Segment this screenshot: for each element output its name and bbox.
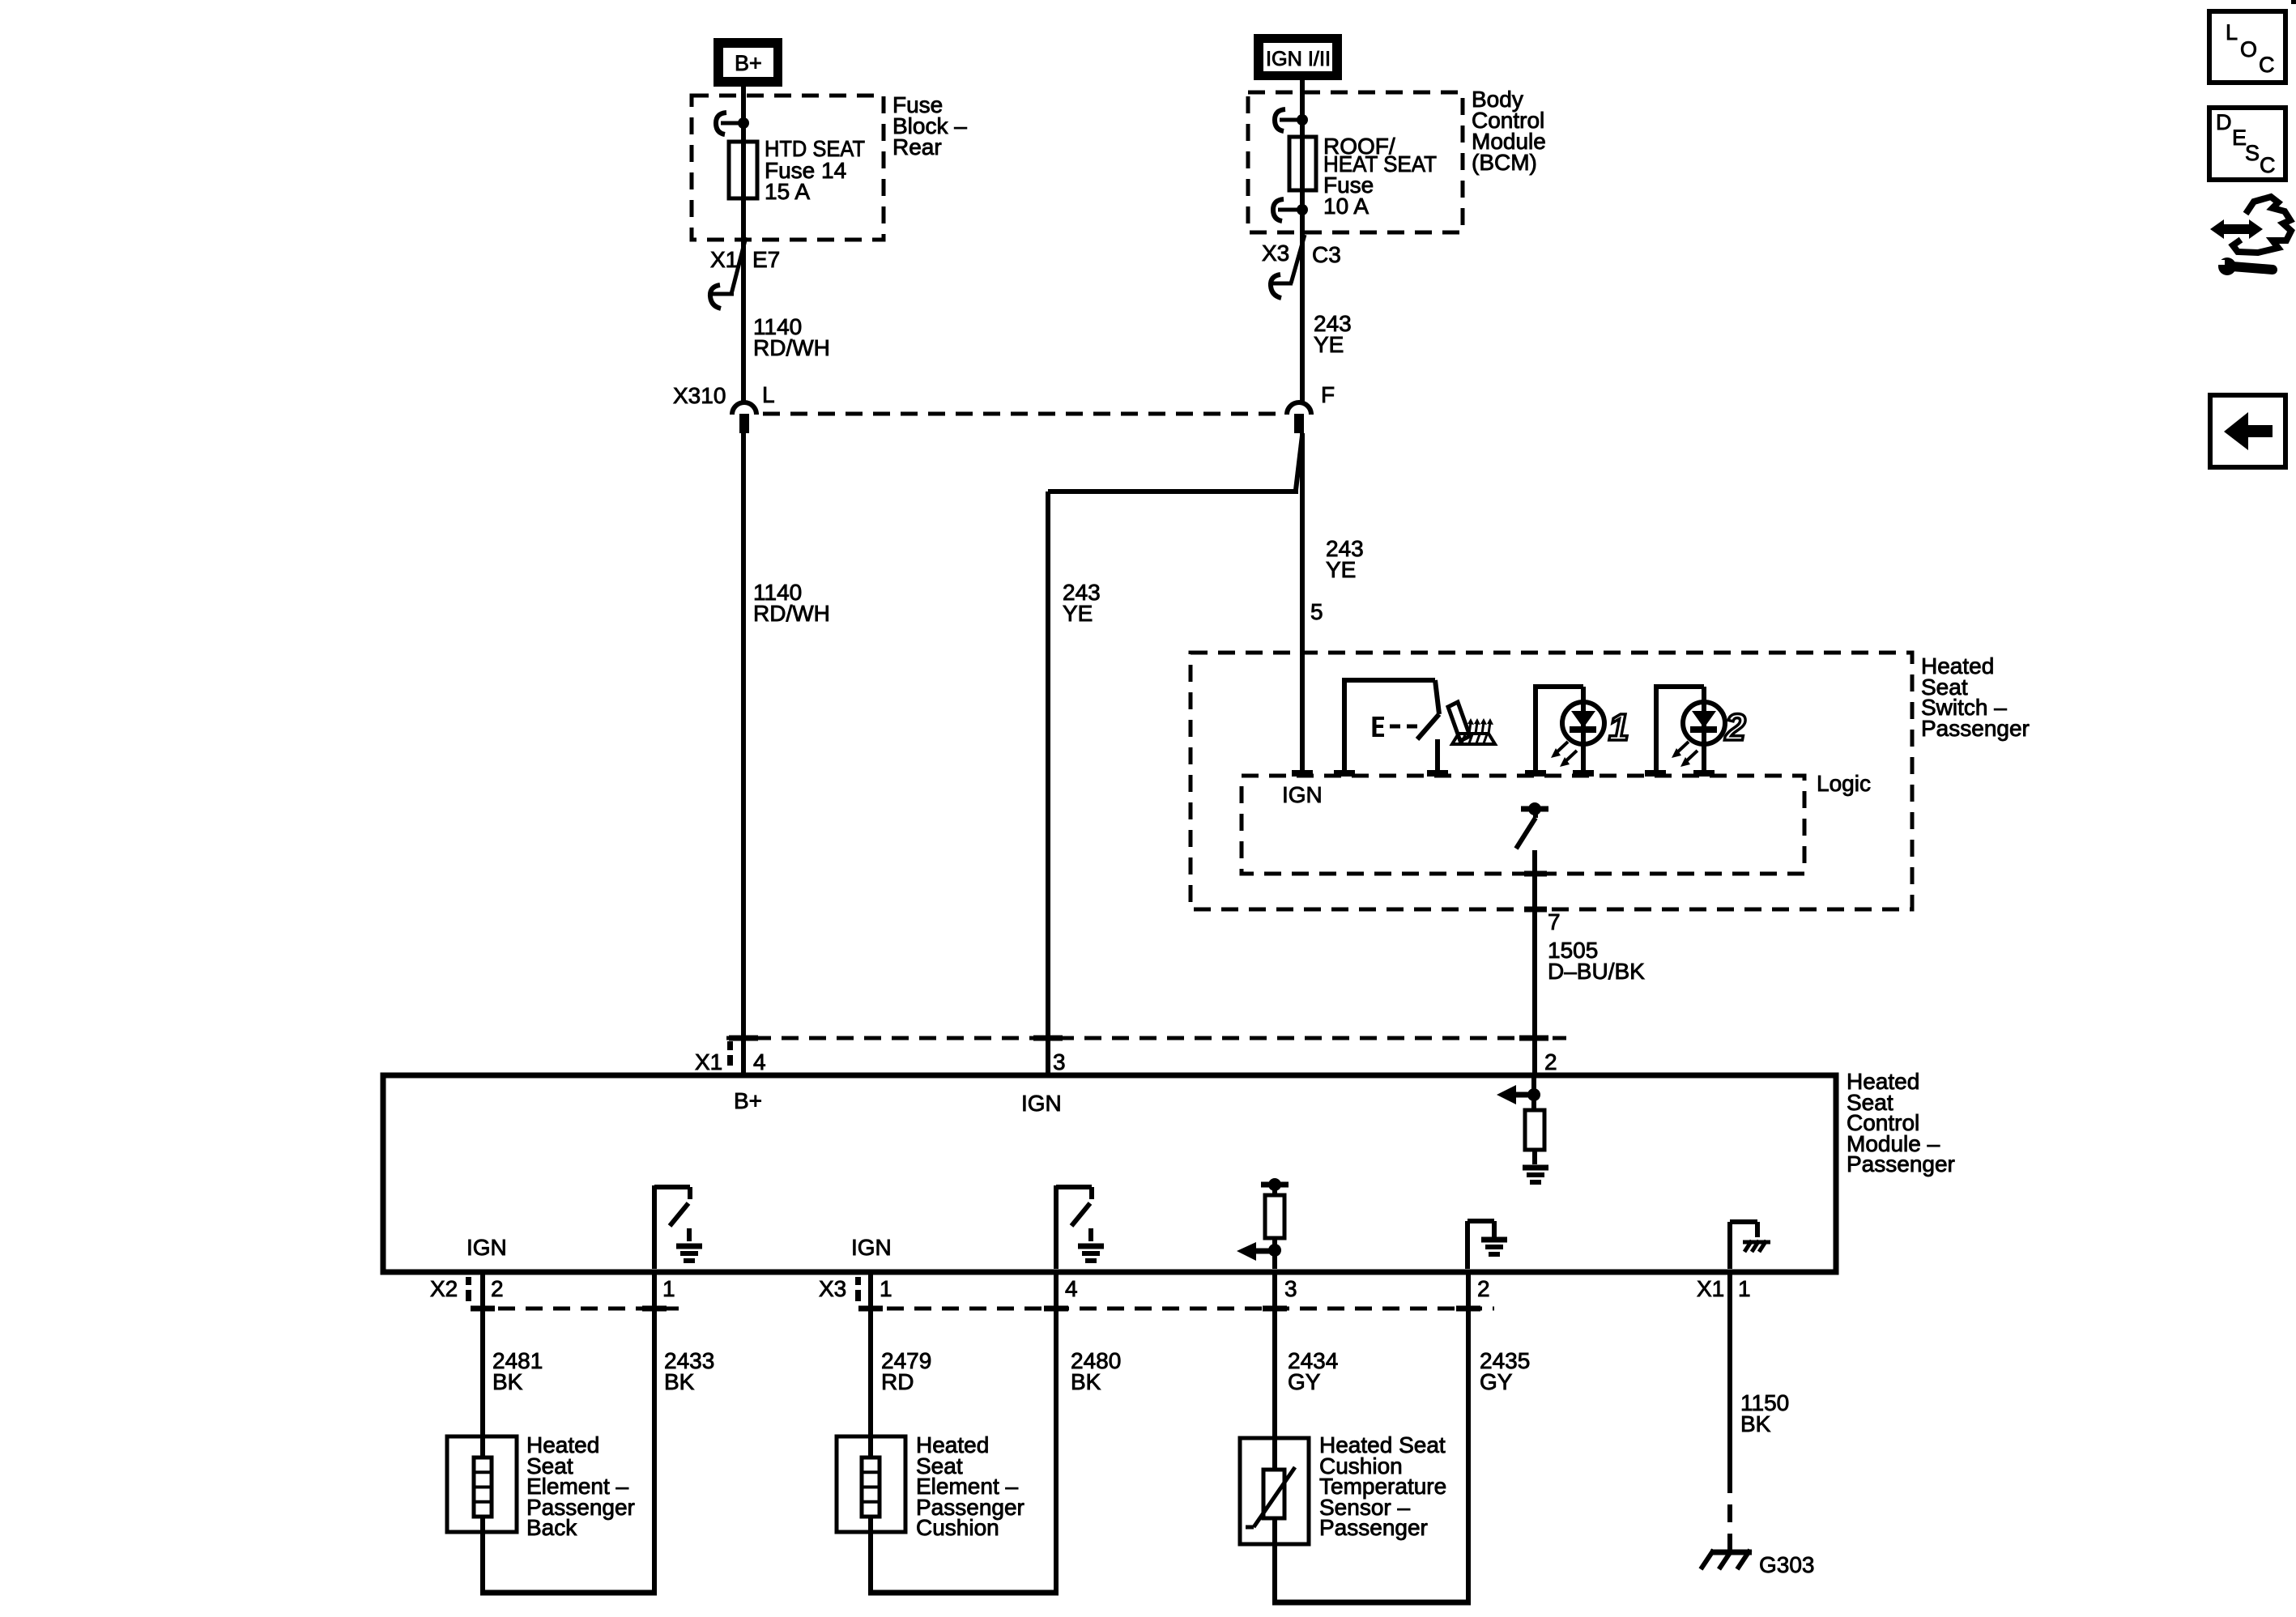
svg-text:BK: BK <box>492 1369 523 1394</box>
svg-text:E7: E7 <box>752 247 780 272</box>
svg-text:Passenger: Passenger <box>1847 1151 1955 1177</box>
svg-text:X2: X2 <box>430 1276 458 1301</box>
svg-text:Rear: Rear <box>892 134 942 160</box>
svg-text:B+: B+ <box>735 51 762 75</box>
svg-text:F: F <box>1321 382 1335 407</box>
svg-text:15 A: 15 A <box>765 179 810 204</box>
svg-text:S: S <box>2245 141 2260 165</box>
svg-text:RD/WH: RD/WH <box>753 601 830 626</box>
svg-text:IGN I/II: IGN I/II <box>1266 48 1331 70</box>
svg-text:YE: YE <box>1326 557 1356 582</box>
svg-text:C: C <box>2260 153 2276 177</box>
svg-text:3: 3 <box>1284 1276 1297 1301</box>
svg-text:Passenger: Passenger <box>1319 1515 1428 1540</box>
svg-text:X1: X1 <box>1697 1276 1724 1301</box>
svg-text:D: D <box>2216 110 2232 134</box>
svg-text:GY: GY <box>1288 1369 1321 1394</box>
svg-text:BK: BK <box>1740 1411 1771 1436</box>
svg-text:IGN: IGN <box>1282 782 1323 807</box>
svg-text:BK: BK <box>664 1369 695 1394</box>
svg-text:4: 4 <box>753 1049 766 1074</box>
svg-text:IGN: IGN <box>851 1235 892 1260</box>
svg-text:Passenger: Passenger <box>1921 716 2030 741</box>
svg-text:GY: GY <box>1480 1369 1513 1394</box>
svg-text:Cushion: Cushion <box>916 1515 999 1540</box>
svg-text:X3: X3 <box>819 1276 846 1301</box>
svg-text:2: 2 <box>1544 1049 1557 1074</box>
svg-text:RD: RD <box>881 1369 914 1394</box>
svg-text:(BCM): (BCM) <box>1472 150 1537 175</box>
svg-text:X1: X1 <box>710 247 738 272</box>
svg-text:D–BU/BK: D–BU/BK <box>1548 959 1645 984</box>
svg-text:5: 5 <box>1310 599 1323 624</box>
svg-text:YE: YE <box>1314 332 1344 357</box>
svg-text:1: 1 <box>1738 1276 1751 1301</box>
svg-text:X310: X310 <box>673 383 726 408</box>
svg-text:BK: BK <box>1071 1369 1101 1394</box>
svg-text:IGN: IGN <box>1021 1091 1062 1116</box>
svg-text:X3: X3 <box>1262 240 1289 266</box>
svg-text:Logic: Logic <box>1817 771 1871 796</box>
svg-text:2: 2 <box>491 1276 504 1301</box>
svg-text:4: 4 <box>1065 1276 1078 1301</box>
svg-text:B+: B+ <box>734 1088 762 1113</box>
svg-text:L: L <box>2226 20 2238 45</box>
svg-text:G303: G303 <box>1759 1552 1815 1577</box>
svg-text:RD/WH: RD/WH <box>753 335 830 360</box>
svg-text:L: L <box>762 382 775 407</box>
svg-text:C3: C3 <box>1312 242 1341 267</box>
svg-text:C: C <box>2259 53 2275 77</box>
svg-text:2: 2 <box>1724 706 1746 748</box>
svg-text:1: 1 <box>662 1276 675 1301</box>
svg-text:1: 1 <box>1608 706 1629 748</box>
svg-text:X1: X1 <box>695 1049 722 1074</box>
svg-text:7: 7 <box>1548 909 1561 934</box>
svg-text:3: 3 <box>1053 1049 1066 1074</box>
svg-text:1: 1 <box>880 1276 892 1301</box>
svg-text:IGN: IGN <box>466 1235 507 1260</box>
svg-text:O: O <box>2240 37 2257 62</box>
svg-text:YE: YE <box>1063 601 1093 626</box>
svg-text:Back: Back <box>526 1515 577 1540</box>
svg-text:2: 2 <box>1477 1276 1490 1301</box>
svg-text:10 A: 10 A <box>1323 194 1369 219</box>
